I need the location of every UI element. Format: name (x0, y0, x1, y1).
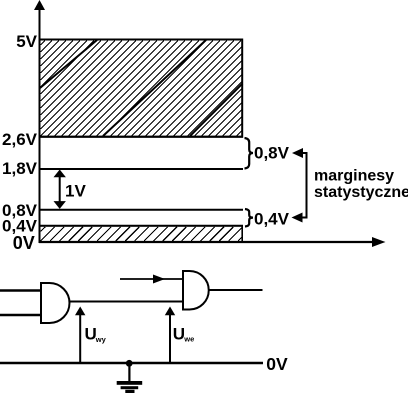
svg-text:we: we (183, 335, 194, 344)
U_wy measurement arrow (75, 307, 85, 363)
svg-text:1,8V: 1,8V (2, 159, 38, 178)
svg-text:0,8V: 0,8V (254, 144, 290, 163)
gate U2 upper input wire with direction arrow (120, 275, 183, 284)
svg-text:statystyczne: statystyczne (314, 184, 408, 201)
5V level line (40, 39, 243, 41)
svg-text:2,6V: 2,6V (2, 130, 38, 149)
svg-text:0V: 0V (266, 354, 288, 374)
label U_we (173, 325, 195, 344)
0.4V level line (40, 225, 243, 227)
0.8V level line (40, 209, 243, 211)
margins bracket with arrows (292, 148, 307, 223)
brace for 0.4V margin (245, 209, 253, 227)
svg-text:wy: wy (95, 335, 107, 344)
gate U1 input wire 2 (0, 314, 41, 316)
label marginesy statystyczne (314, 168, 408, 202)
voltage axis (vertical) (34, 0, 45, 243)
svg-text:1V: 1V (65, 181, 86, 200)
ground symbol (117, 363, 143, 393)
hatched region: low-level band (0.4V..0V) (40, 226, 243, 242)
x axis (horizontal) (39, 237, 386, 247)
gate U2 (AND gate right) (183, 271, 209, 310)
0V ground rail (0, 362, 263, 365)
svg-text:5V: 5V (16, 32, 37, 51)
1.8V level line (40, 168, 243, 170)
gate U1 (AND gate left) (41, 283, 69, 323)
svg-text:U: U (173, 325, 185, 344)
junction node (126, 360, 133, 367)
U_we measurement arrow (165, 307, 175, 363)
brace for 0.8V margin (245, 138, 254, 169)
gate U1 input wire 1 (0, 289, 41, 291)
hatched region: high-level band (5V..2.6V) (40, 40, 243, 137)
gate U2 output wire (209, 289, 263, 291)
2.6V level line (40, 136, 243, 138)
wire U1 output to U2 input (69, 301, 183, 303)
svg-text:0V: 0V (13, 233, 35, 253)
label U_wy (85, 325, 107, 344)
1V double arrow (54, 170, 66, 209)
svg-text:marginesy: marginesy (314, 168, 394, 185)
svg-text:0,4V: 0,4V (254, 209, 290, 228)
